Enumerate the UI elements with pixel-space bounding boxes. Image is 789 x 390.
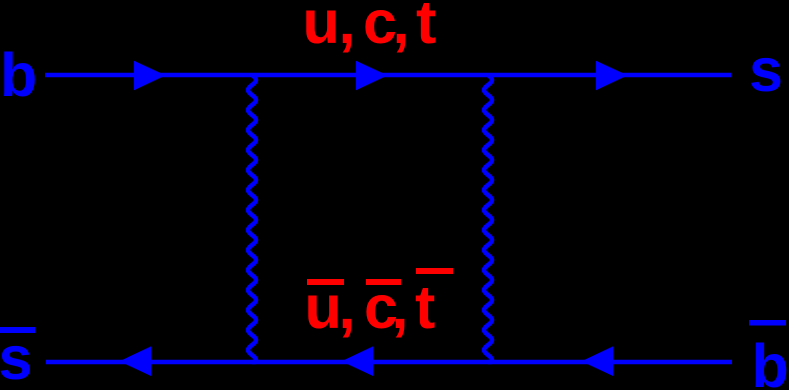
cbar overbar (366, 279, 401, 285)
arrow A2 (top line, right) (356, 61, 388, 90)
ubar overbar (307, 279, 344, 285)
svg-text:b: b (0, 41, 37, 109)
arrow A4 (bottom line, left) (120, 346, 152, 376)
svg-text:s: s (749, 36, 783, 104)
label bbar overbar (749, 320, 786, 326)
tbar overbar (416, 268, 453, 274)
label sbar overbar (0, 327, 35, 333)
wire: top fermion line b -> s (45, 73, 731, 78)
svg-text:u: u (303, 0, 340, 56)
svg-text:,: , (339, 273, 356, 341)
svg-text:,: , (392, 273, 409, 341)
W boson W1 (left wavy propagator) (248, 75, 256, 362)
W boson W2 (right wavy propagator) (484, 75, 492, 362)
svg-text:,: , (393, 0, 410, 56)
arrow A6 (bottom line, left) (582, 346, 614, 376)
arrow A5 (bottom line, left) (342, 346, 374, 376)
svg-text:b: b (752, 332, 789, 390)
svg-text:,: , (339, 0, 356, 56)
svg-text:t: t (415, 273, 435, 341)
svg-text:t: t (416, 0, 436, 56)
wire: bottom fermion line bbar -> sbar (46, 360, 732, 365)
arrow A3 (top line, right) (596, 61, 628, 90)
arrow A1 (top line, right) (134, 61, 166, 90)
svg-text:s: s (0, 324, 32, 390)
